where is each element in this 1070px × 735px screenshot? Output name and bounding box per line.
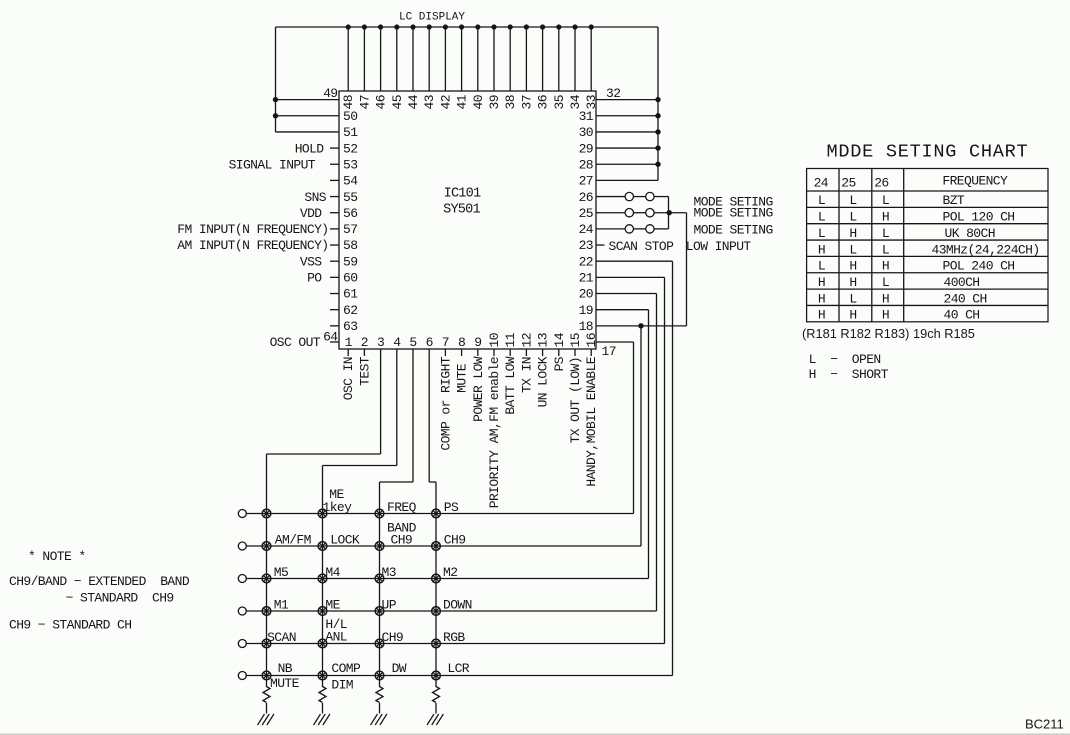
svg-text:26: 26 [874,176,888,191]
svg-text:62: 62 [343,303,357,318]
svg-text:L: L [849,291,856,306]
svg-text:45: 45 [390,95,405,109]
svg-text:21: 21 [579,271,594,286]
svg-text:IC101: IC101 [444,187,481,202]
svg-text:H: H [849,308,856,323]
svg-text:46: 46 [374,95,389,109]
svg-text:27: 27 [579,174,593,189]
svg-text:LOW INPUT: LOW INPUT [686,239,752,254]
svg-text:SCAN: SCAN [267,630,296,645]
svg-text:53: 53 [343,157,357,172]
svg-text:LC DISPLAY: LC DISPLAY [399,12,465,24]
svg-text:SNS: SNS [304,190,326,205]
svg-text:43MHz(24,224CH): 43MHz(24,224CH) [932,242,1040,257]
svg-text:H − SHORT: H − SHORT [809,367,889,382]
svg-text:CH9: CH9 [382,630,404,645]
svg-text:38: 38 [503,95,518,109]
svg-text:ME: ME [325,598,340,613]
svg-text:35: 35 [552,95,567,109]
svg-text:2: 2 [361,335,368,350]
svg-text:M4: M4 [325,565,340,580]
svg-text:13: 13 [536,333,551,347]
svg-text:40: 40 [471,95,486,109]
svg-text:42: 42 [438,95,453,109]
svg-text:− STANDARD CH9: − STANDARD CH9 [66,591,174,606]
svg-text:48: 48 [341,95,356,109]
svg-text:L: L [882,193,889,208]
svg-text:41: 41 [455,94,470,109]
svg-text:H: H [849,275,856,290]
svg-text:MUTE: MUTE [270,676,300,691]
svg-text:LCR: LCR [447,661,469,676]
svg-text:H: H [818,308,825,323]
svg-text:CH9 − STANDARD CH: CH9 − STANDARD CH [9,618,131,633]
svg-text:400CH: 400CH [944,275,980,290]
svg-text:DW: DW [392,661,407,676]
svg-text:L: L [849,193,856,208]
svg-text:43: 43 [422,95,437,109]
svg-text:BC211: BC211 [1025,717,1064,732]
svg-text:PO: PO [307,271,322,286]
svg-text:UP: UP [382,598,397,613]
svg-text:34: 34 [568,94,583,109]
svg-text:M5: M5 [274,565,288,580]
svg-text:SIGNAL INPUT: SIGNAL INPUT [229,157,316,172]
svg-text:COMP or RIGHT: COMP or RIGHT [438,356,453,450]
svg-text:DOWN: DOWN [443,598,472,613]
svg-text:L: L [818,226,825,241]
svg-text:L: L [849,242,856,257]
svg-text:L: L [882,242,889,257]
svg-text:28: 28 [579,157,593,172]
svg-text:H: H [882,291,889,306]
svg-text:(R181 R182 R183) 19ch R185: (R181 R182 R183) 19ch R185 [802,326,975,341]
svg-text:PRIORITY AM,FM enable: PRIORITY AM,FM enable [487,357,502,508]
svg-text:25: 25 [579,206,593,221]
svg-text:16: 16 [584,333,599,347]
svg-text:19: 19 [579,303,593,318]
svg-text:3: 3 [377,335,384,350]
svg-text:M2: M2 [443,565,457,580]
svg-text:PS: PS [444,500,459,515]
svg-text:29: 29 [579,141,593,156]
svg-text:CH9: CH9 [391,533,413,548]
svg-text:61: 61 [343,287,358,302]
svg-text:50: 50 [343,109,357,124]
svg-text:55: 55 [343,190,357,205]
svg-text:POWER LOW: POWER LOW [471,356,486,422]
svg-text:M1: M1 [274,598,289,613]
svg-text:L − OPEN: L − OPEN [809,352,881,367]
svg-text:25: 25 [841,176,855,191]
svg-text:11: 11 [503,332,518,347]
svg-text:CH9: CH9 [444,533,466,548]
svg-text:10: 10 [487,333,502,347]
svg-text:H: H [882,259,889,274]
svg-text:H: H [818,275,825,290]
svg-text:ANL: ANL [325,630,347,645]
svg-text:24: 24 [579,222,594,237]
svg-text:TX OUT (LOW): TX OUT (LOW) [568,357,583,443]
svg-text:7: 7 [442,335,449,350]
svg-text:L: L [818,193,825,208]
svg-text:PS: PS [552,356,567,371]
svg-text:COMP: COMP [331,661,361,676]
svg-text:59: 59 [343,254,357,269]
svg-text:NB: NB [278,661,293,676]
svg-text:BZT: BZT [943,193,965,208]
svg-text:39: 39 [487,95,502,109]
svg-text:8: 8 [458,335,465,350]
svg-text:OSC IN: OSC IN [341,357,356,400]
svg-text:SCAN STOP: SCAN STOP [609,239,675,254]
svg-text:18: 18 [579,319,593,334]
svg-text:240 CH: 240 CH [944,291,987,306]
svg-text:64: 64 [323,330,338,345]
svg-text:H: H [882,210,889,225]
svg-text:58: 58 [343,238,357,253]
svg-text:HANDY,MOBIL ENABLE: HANDY,MOBIL ENABLE [584,356,599,486]
svg-text:1key: 1key [323,500,353,515]
svg-text:5: 5 [409,335,416,350]
svg-text:BATT LOW: BATT LOW [503,356,518,414]
svg-text:60: 60 [343,271,357,286]
svg-text:36: 36 [536,95,551,109]
svg-text:32: 32 [606,86,620,101]
svg-text:56: 56 [343,206,357,221]
svg-text:4: 4 [393,335,401,350]
svg-text:DIM: DIM [331,677,353,692]
svg-text:44: 44 [406,94,421,109]
svg-text:L: L [818,210,825,225]
svg-text:L: L [882,275,889,290]
svg-text:AM INPUT(N FREQUENCY): AM INPUT(N FREQUENCY) [177,238,328,253]
svg-text:OSC OUT: OSC OUT [270,335,321,350]
svg-text:51: 51 [343,125,358,140]
svg-text:49: 49 [323,86,337,101]
svg-text:FREQ: FREQ [387,500,417,515]
svg-text:POL 120 CH: POL 120 CH [943,210,1015,225]
svg-text:54: 54 [343,174,358,189]
svg-text:LOCK: LOCK [330,533,360,548]
svg-text:TX IN: TX IN [519,357,534,393]
svg-text:UN LOCK: UN LOCK [536,356,551,407]
svg-text:FREQUENCY: FREQUENCY [942,174,1008,189]
svg-text:L: L [849,210,856,225]
svg-text:TEST: TEST [357,356,372,386]
svg-text:63: 63 [343,319,357,334]
svg-text:52: 52 [343,141,357,156]
svg-text:1: 1 [345,335,353,350]
svg-text:L: L [818,259,825,274]
svg-text:L: L [882,226,889,241]
svg-text:H: H [882,308,889,323]
svg-text:SY501: SY501 [443,203,480,218]
svg-text:47: 47 [357,95,372,109]
svg-text:26: 26 [579,190,593,205]
svg-text:24: 24 [814,176,829,191]
svg-text:MDDE SETING CHART: MDDE SETING CHART [827,141,1029,162]
svg-text:HOLD: HOLD [295,141,325,156]
svg-text:17: 17 [602,344,616,359]
svg-text:MUTE: MUTE [455,363,470,393]
svg-text:23: 23 [579,238,593,253]
svg-text:30: 30 [579,125,593,140]
svg-text:37: 37 [519,95,534,109]
svg-text:M3: M3 [382,565,396,580]
svg-text:FM INPUT(N FREQUENCY): FM INPUT(N FREQUENCY) [177,222,328,237]
svg-text:31: 31 [579,109,594,124]
svg-text:* NOTE *: * NOTE * [28,549,86,564]
svg-text:15: 15 [568,333,583,347]
svg-text:VSS: VSS [300,254,322,269]
svg-text:MODE SETING: MODE SETING [694,223,773,238]
svg-text:22: 22 [579,254,593,269]
svg-text:H: H [818,291,825,306]
svg-text:20: 20 [579,287,593,302]
svg-text:H: H [849,226,856,241]
svg-text:H: H [818,242,825,257]
svg-text:VDD: VDD [300,206,322,221]
svg-text:CH9/BAND − EXTENDED BAND: CH9/BAND − EXTENDED BAND [9,574,190,589]
svg-text:33: 33 [584,95,599,109]
svg-text:POL 240 CH: POL 240 CH [943,259,1015,274]
svg-text:14: 14 [552,332,567,347]
svg-text:12: 12 [519,333,534,347]
svg-text:MODE SETING: MODE SETING [694,206,773,221]
svg-text:6: 6 [426,335,433,350]
svg-text:H: H [849,259,856,274]
svg-text:AM/FM: AM/FM [275,533,311,548]
svg-text:UK 80CH: UK 80CH [945,226,995,241]
svg-text:RGB: RGB [443,630,465,645]
svg-text:57: 57 [343,222,357,237]
svg-text:40 CH: 40 CH [944,308,980,323]
svg-text:9: 9 [474,335,481,350]
